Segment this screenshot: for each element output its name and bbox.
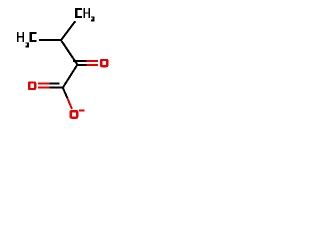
- wire: single bond H3C to C3: [39, 39, 62, 41]
- wire: single bond C1 to O-minus (red half): [67, 98, 72, 109]
- wire: carboxylate C1=O double bond, main line (black half): [49, 87, 62, 89]
- node: ketone oxygen O label: [100, 59, 109, 68]
- node: carboxylate double-bonded oxygen O label: [28, 81, 37, 90]
- wire: carboxylate C1=O double bond, second line (black half): [49, 82, 59, 84]
- wire: carboxylate C1=O double bond, second line (red half): [38, 82, 50, 84]
- wire: single bond C1 to O-minus (black half): [63, 88, 68, 99]
- wire: ketone C2=O double bond, second line (red half): [87, 60, 99, 62]
- node: top methyl label CH3: [75, 8, 94, 21]
- wire: ketone C2=O double bond, second line (black half): [73, 60, 87, 62]
- node: carboxylate anion oxygen O label: [70, 110, 79, 119]
- node: minus charge on anion oxygen: [79, 109, 84, 111]
- wire: ketone C2=O double bond, main line (black half): [77, 64, 86, 66]
- wire: carboxylate C1=O double bond, main line (red half): [38, 87, 50, 89]
- wire: single bond C3 down to C2: [61, 40, 77, 64]
- wire: single bond C2 down to C1: [63, 65, 78, 88]
- wire: single bond C3 up to CH3: [61, 21, 75, 40]
- node: left methyl label H3C: [17, 32, 37, 48]
- wire: ketone C2=O double bond, main line (red half): [87, 64, 99, 66]
